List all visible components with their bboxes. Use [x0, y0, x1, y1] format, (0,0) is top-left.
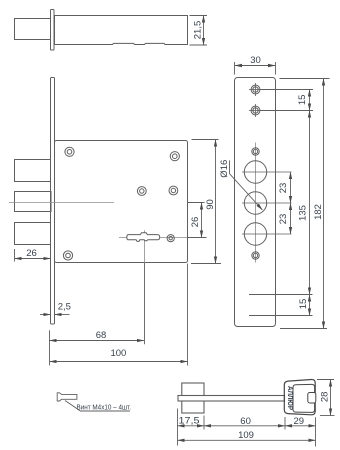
- cylinder hole 2: [244, 192, 266, 214]
- side view: faceplate edge: [51, 10, 55, 51]
- dim 100 line: [50, 361, 188, 363]
- dim 109 line: [178, 439, 316, 441]
- plate screw hole 1 (cross): [249, 83, 262, 96]
- dim 21,5 extension top: [190, 15, 208, 17]
- keyhole horizontal centerline: [119, 237, 188, 239]
- svg-text:АЛЛЮР: АЛЛЮР: [286, 386, 295, 410]
- dim 26 right: ext bottom: [187, 237, 207, 239]
- dim 23 bottom line: [290, 203, 292, 234]
- dim 182 line: [323, 79, 325, 329]
- svg-text:30: 30: [250, 55, 261, 66]
- svg-text:Ø16: Ø16: [219, 160, 230, 178]
- svg-text:23: 23: [278, 183, 289, 194]
- dim 2,5 arrows: [40, 314, 50, 316]
- svg-text:26: 26: [190, 217, 201, 228]
- svg-text:26: 26: [26, 248, 37, 259]
- svg-text:68: 68: [96, 330, 107, 341]
- dim 17,5/60/29 ext lines: [178, 409, 316, 447]
- center line middle bolt: [9, 202, 114, 204]
- dim 90: ext top: [192, 139, 219, 141]
- plate small hole upper: [252, 148, 259, 155]
- key bit: [182, 383, 204, 413]
- svg-text:135: 135: [298, 205, 309, 221]
- plate small hole lower: [252, 252, 259, 259]
- plate center line: [255, 143, 257, 263]
- svg-text:109: 109: [238, 430, 254, 441]
- svg-text:182: 182: [313, 204, 324, 220]
- key ring slot: [308, 393, 316, 404]
- key head inner panel: [293, 384, 315, 412]
- svg-text:28: 28: [320, 392, 331, 403]
- dim 23 top line: [290, 172, 292, 203]
- dim 29 line: [285, 425, 315, 427]
- key head outline: [284, 379, 315, 414]
- screw hole mid-left: [137, 187, 146, 196]
- dim 135 line: [309, 111, 311, 295]
- svg-text:15: 15: [297, 95, 308, 106]
- cylinder hole 3 centerline: [242, 233, 292, 235]
- key shaft: [178, 396, 285, 402]
- side view: deadbolt stem: [15, 19, 51, 40]
- screw hole mid-right: [169, 186, 178, 195]
- plate hole ext lines right: [249, 90, 313, 316]
- screw note leader: [65, 401, 130, 412]
- svg-text:17,5: 17,5: [179, 415, 200, 426]
- dim 21,5 line: [203, 16, 205, 45]
- dim 90: ext bottom: [191, 263, 221, 265]
- keyhole vertical centerline: [144, 230, 146, 263]
- faceplate front view plate: [235, 78, 276, 327]
- dim 26 right line: [201, 203, 203, 238]
- dim 68 line: [50, 340, 144, 342]
- dim 21,5 extension bottom: [190, 44, 208, 46]
- svg-text:15: 15: [298, 299, 309, 310]
- screw M4 symbol: [57, 393, 77, 401]
- cylinder hole 3: [244, 223, 266, 245]
- svg-text:100: 100: [110, 348, 126, 359]
- dim 17,5 line: [178, 425, 204, 427]
- dim 28 line: [330, 380, 332, 416]
- keyhole small circle: [167, 235, 174, 242]
- dim 26 bolt width line: [15, 258, 51, 260]
- plate screw hole 2 (cross): [249, 104, 262, 117]
- cylinder hole 1: [244, 161, 266, 183]
- dim 30: ext lines: [235, 62, 276, 75]
- screw hole bottom-left: [63, 251, 72, 260]
- svg-text:21,5: 21,5: [192, 21, 203, 40]
- dim 28 ext lines: [317, 380, 335, 416]
- svg-text:90: 90: [205, 199, 216, 210]
- deadbolt middle: [15, 192, 52, 212]
- side view: lock case: [55, 16, 188, 45]
- main view: lock case body: [55, 141, 188, 263]
- keyhole slot: [127, 233, 160, 242]
- dim 26 bolt width: ext line left: [14, 249, 16, 262]
- svg-text:29: 29: [294, 416, 305, 427]
- svg-text:23: 23: [278, 214, 289, 225]
- dim 182 ext bottom: [280, 328, 327, 330]
- dim 26 right: ext top: [187, 202, 205, 204]
- dim 15 top line: [309, 90, 311, 111]
- deadbolt bottom: [15, 223, 51, 245]
- screw hole top-left: [65, 147, 74, 156]
- dim 68/100 left extension: [49, 330, 51, 365]
- dim 15 bottom line: [309, 295, 311, 316]
- dim 90 line: [215, 140, 217, 264]
- screw hole top-right: [170, 152, 179, 161]
- main view: faceplate edge-on bar: [51, 78, 55, 325]
- dim 100 right extension: [187, 264, 189, 366]
- dim 60 line: [204, 425, 285, 427]
- deadbolt top: [15, 160, 51, 182]
- svg-text:2,5: 2,5: [58, 302, 71, 313]
- dim 30 line: [235, 65, 275, 67]
- svg-text:Винт М4х10 – 4шт.: Винт М4х10 – 4шт.: [77, 403, 132, 412]
- dim 182 ext top: [280, 78, 330, 80]
- cylinder hole 1 centerline: [242, 171, 292, 173]
- svg-text:60: 60: [240, 416, 251, 427]
- label O16 leader: [230, 160, 263, 210]
- cylinder hole 2 centerline: [242, 202, 292, 204]
